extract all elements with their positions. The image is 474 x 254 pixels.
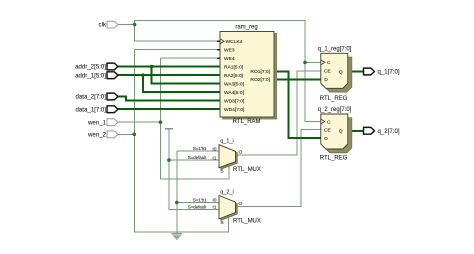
svg-text:S=default: S=default	[188, 155, 207, 160]
svg-text:q_2_reg[7:0]: q_2_reg[7:0]	[318, 107, 352, 113]
svg-text:WA4[5:0]: WA4[5:0]	[224, 90, 245, 96]
svg-text:WD3[7:0]: WD3[7:0]	[224, 99, 245, 105]
svg-text:C: C	[327, 60, 331, 66]
svg-text:O: O	[239, 150, 243, 156]
svg-text:I0: I0	[212, 198, 216, 204]
svg-text:q_1_i: q_1_i	[220, 139, 233, 145]
svg-text:RO1[7:0]: RO1[7:0]	[250, 69, 270, 75]
svg-text:RO2[7:0]: RO2[7:0]	[250, 77, 270, 83]
svg-text:CE: CE	[324, 69, 332, 75]
svg-text:clk: clk	[99, 22, 107, 29]
svg-text:addr_1[5:0]: addr_1[5:0]	[75, 72, 106, 79]
svg-text:RA2[5:0]: RA2[5:0]	[224, 73, 244, 79]
svg-text:I1: I1	[212, 155, 216, 161]
svg-text:S=1'b1: S=1'b1	[193, 198, 207, 203]
svg-text:C: C	[327, 119, 331, 125]
svg-text:WD4[7:0]: WD4[7:0]	[224, 107, 245, 113]
svg-text:Q: Q	[339, 129, 343, 135]
svg-text:Q: Q	[339, 69, 343, 75]
svg-text:I1: I1	[212, 205, 216, 211]
svg-text:RA1[5:0]: RA1[5:0]	[224, 65, 244, 71]
svg-text:wen_1: wen_1	[87, 119, 107, 126]
svg-text:addr_2[5:0]: addr_2[5:0]	[75, 64, 106, 71]
svg-text:WE3: WE3	[224, 48, 235, 54]
svg-text:CE: CE	[324, 127, 332, 133]
svg-text:WA3[5:0]: WA3[5:0]	[224, 82, 245, 88]
svg-text:WE4: WE4	[224, 56, 235, 62]
svg-text:wen_2: wen_2	[87, 131, 107, 138]
svg-text:data_2[7:0]: data_2[7:0]	[76, 94, 107, 101]
svg-text:WCLK4: WCLK4	[226, 39, 243, 45]
svg-text:RTL_MUX: RTL_MUX	[233, 167, 261, 173]
svg-text:RTL_RAM: RTL_RAM	[233, 119, 261, 125]
svg-text:data_1[7:0]: data_1[7:0]	[76, 106, 107, 113]
svg-text:q_1_reg[7:0]: q_1_reg[7:0]	[318, 46, 352, 52]
svg-text:D: D	[324, 136, 328, 142]
svg-text:ram_reg: ram_reg	[235, 24, 257, 30]
svg-text:q_2_i: q_2_i	[220, 190, 233, 196]
svg-text:q_2[7:0]: q_2[7:0]	[378, 128, 400, 135]
svg-text:S=1'b1: S=1'b1	[193, 146, 207, 151]
svg-text:S=default: S=default	[188, 204, 207, 209]
svg-text:RTL_MUX: RTL_MUX	[233, 218, 261, 224]
svg-text:D: D	[324, 77, 328, 83]
svg-text:RTL_REG: RTL_REG	[320, 96, 348, 102]
svg-text:RTL_REG: RTL_REG	[320, 155, 348, 161]
svg-text:O: O	[239, 201, 243, 207]
svg-text:q_1[7:0]: q_1[7:0]	[378, 69, 400, 76]
svg-text:I0: I0	[212, 146, 216, 152]
